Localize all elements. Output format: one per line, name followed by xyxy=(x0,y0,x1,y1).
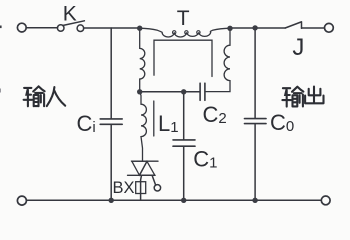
arrester side electrode terminal xyxy=(154,185,160,191)
wire C1 branch lower xyxy=(183,147,185,201)
terminal input bottom-left xyxy=(17,196,26,205)
arrester side electrode lead xyxy=(152,176,156,186)
capacitor Ci xyxy=(100,118,122,120)
switch K right contact xyxy=(77,25,84,32)
node A junction dot xyxy=(137,26,142,31)
svg-text:K: K xyxy=(63,2,77,25)
wire C0 branch lower xyxy=(254,124,256,201)
wire mid rail: N1 to C2 xyxy=(140,91,200,93)
transformer T cusp loop 2 xyxy=(185,31,188,34)
arrester bottom bar xyxy=(128,174,156,176)
node C1-bottom junction dot xyxy=(181,198,186,203)
inductor L1 core line xyxy=(153,101,155,136)
node C0-top junction dot xyxy=(252,25,257,30)
inductor L1 xyxy=(140,92,147,161)
transformer frame (core shield rectangle, open bottom) xyxy=(154,40,212,76)
capacitor C0 xyxy=(245,118,267,120)
wire top rail: node B to J blade xyxy=(230,27,285,29)
switch J blade xyxy=(285,22,301,28)
terminal input top-left xyxy=(17,23,26,32)
node N1 junction dot xyxy=(137,89,142,94)
svg-text:J: J xyxy=(292,34,304,61)
label 输入 (input) xyxy=(24,86,66,106)
arrester triangle up xyxy=(140,161,155,175)
svg-text:T: T xyxy=(177,7,190,30)
terminal output top-right xyxy=(325,23,334,32)
wire C1 branch upper xyxy=(183,92,185,140)
switch J fixed contact tick xyxy=(301,22,303,28)
transformer T cusp loop 1 xyxy=(173,31,176,34)
capacitor C1 xyxy=(173,139,195,141)
fuse BX body xyxy=(136,182,146,194)
node Ci-bottom junction dot xyxy=(109,198,114,203)
terminal output bottom-right xyxy=(321,196,330,205)
wire bottom rail xyxy=(27,199,321,201)
transformer T cusp loop 3 xyxy=(197,31,200,34)
svg-text:L1: L1 xyxy=(158,111,179,136)
svg-text:C0: C0 xyxy=(270,110,294,135)
svg-text:Ci: Ci xyxy=(77,111,96,136)
wire Ci branch lower xyxy=(110,125,112,201)
wire arrester to fuse xyxy=(140,175,143,200)
transformer T primary coil xyxy=(140,28,230,37)
svg-text:C1: C1 xyxy=(193,147,217,172)
svg-text:BX: BX xyxy=(113,179,135,197)
wire top rail: terminal to switch K xyxy=(26,27,57,29)
node C0-bottom junction dot xyxy=(252,198,257,203)
right winding (node B down to C2) xyxy=(205,28,230,91)
switch K left contact xyxy=(57,25,64,32)
wire top rail: J to output terminal xyxy=(302,27,325,29)
left winding (node A down to node N1) xyxy=(140,28,145,92)
capacitor C2 xyxy=(199,83,201,100)
arrester triangle down xyxy=(132,161,147,175)
node C1-top junction dot xyxy=(181,89,186,94)
wire top rail: switch K to node A xyxy=(84,27,140,29)
node B junction dot xyxy=(227,26,232,31)
label 输出 (output) xyxy=(282,87,323,107)
wire Ci branch upper xyxy=(110,28,112,119)
wire C0 branch upper xyxy=(254,28,256,118)
scan artifact left edge tick xyxy=(0,26,2,29)
svg-text:C2: C2 xyxy=(203,102,227,127)
switch K blade xyxy=(63,21,84,26)
arrester top bar xyxy=(132,160,159,162)
